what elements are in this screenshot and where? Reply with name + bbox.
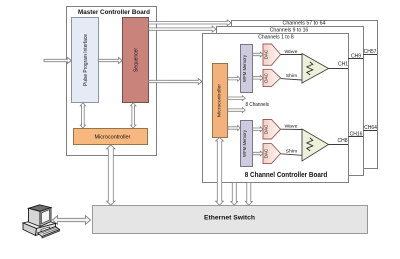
wire: Shim signal DAC4 to amplifier A2: [281, 148, 303, 155]
block U5: WFM Memory (top): [241, 45, 253, 93]
svg-text:DAC: DAC: [264, 124, 269, 134]
monitor: [29, 205, 52, 212]
label: 8 Channels: [246, 102, 270, 108]
svg-text:Microcontroller: Microcontroller: [217, 83, 222, 117]
converter: DAC4 (Shim, bottom group): [263, 144, 281, 164]
wire: CH9 output stub from middle board: [348, 54, 363, 60]
wire: Shim signal DAC2 to amplifier A1: [281, 73, 303, 80]
svg-text:CH1: CH1: [338, 61, 348, 67]
wire: CH57 output stub from back board: [363, 49, 377, 55]
svg-text:Shim: Shim: [286, 148, 298, 153]
svg-text:WFM Memory: WFM Memory: [242, 54, 247, 82]
wire: Microcontroller to WFM Memory (top): [228, 76, 241, 81]
block U2: Sequencer: [123, 18, 149, 103]
wire: host computer to Ethernet Switch (bidirectional arrow): [53, 216, 91, 225]
svg-text:Channels 1 to 8: Channels 1 to 8: [258, 34, 294, 40]
block U1: Pulse Program Interface: [72, 18, 99, 103]
wire: Sequencer to back board (Channels 57 to 64): [149, 20, 231, 26]
svg-text:Channels 57 to 64: Channels 57 to 64: [283, 21, 326, 27]
wire: 8 Channels block arrow (upper): [228, 96, 246, 101]
block U3: Microcontroller (master): [74, 129, 148, 145]
label: 8 Channel Controller Board: [245, 172, 328, 179]
wire: Wave signal DAC3 to amplifier A2: [281, 124, 303, 130]
label: Master Controller Board: [78, 9, 150, 16]
svg-text:WFM Memory: WFM Memory: [242, 129, 247, 157]
wire: CH16 output stub from middle board: [348, 131, 363, 137]
wire: amplifier A1 output to CH1: [329, 61, 349, 68]
svg-text:CH57: CH57: [364, 49, 377, 55]
wire: CH64 output stub from back board: [363, 125, 377, 131]
svg-text:Pulse Program Interface: Pulse Program Interface: [83, 34, 89, 86]
wire: back board link down to Ethernet Switch: [245, 183, 252, 206]
svg-text:Microcontroller: Microcontroller: [95, 135, 131, 141]
board: back 8 channel controller board (Channels 57 to 64): [232, 21, 378, 169]
svg-text:Channels 9 to 16: Channels 9 to 16: [270, 27, 309, 33]
svg-text:CH8: CH8: [337, 138, 347, 144]
svg-text:CH16: CH16: [350, 131, 363, 137]
board: Master Controller Board outline: [67, 7, 157, 156]
amplifier A1 (top, with waveform symbol): [302, 54, 329, 84]
board: middle 8 channel controller board (Channels 9 to 16): [217, 27, 364, 176]
converter: DAC1 (Wave, top group): [263, 44, 281, 65]
converter: DAC2 (Shim, top group): [263, 69, 281, 86]
wire: Sequencer to front board (Channels 1 to 8): [149, 79, 202, 85]
svg-text:8 Channels: 8 Channels: [246, 102, 270, 108]
label: Channels 1 to 8: [258, 34, 294, 40]
svg-text:DAC: DAC: [264, 148, 269, 158]
svg-text:DAC: DAC: [264, 73, 269, 83]
wire: WFM Memory to DAC3: [253, 127, 263, 132]
wire: front board Microcontroller down to Ethernet Switch: [216, 137, 224, 205]
label: Channels 9 to 16: [270, 27, 309, 33]
keyboard: [38, 227, 60, 237]
svg-text:Shim: Shim: [286, 73, 298, 78]
svg-text:Sequencer: Sequencer: [134, 48, 140, 72]
svg-text:Wave: Wave: [285, 124, 298, 129]
block U4: Microcontroller (8 channel board, vertical): [213, 64, 228, 138]
wire: Sequencer down to Microcontroller: [131, 103, 136, 129]
wire: WFM Memory to DAC2: [253, 75, 263, 80]
svg-text:8 Channel Controller Board: 8 Channel Controller Board: [245, 172, 328, 179]
wire: Microcontroller to WFM Memory (bottom): [228, 126, 241, 131]
label: Channels 57 to 64: [283, 21, 326, 27]
block U6: WFM Memory (bottom): [241, 121, 253, 167]
wire: middle board link down to Ethernet Switch: [231, 183, 238, 206]
svg-text:DAC: DAC: [264, 49, 269, 59]
host computer icon (monitor, case, keyboard): [23, 205, 60, 238]
svg-text:Master Controller Board: Master Controller Board: [78, 9, 150, 16]
converter: DAC3 (Wave, bottom group): [263, 120, 281, 140]
wire: Pulse Program Interface down to Microcontroller: [80, 103, 85, 129]
svg-text:Wave: Wave: [285, 49, 298, 54]
wire: Sequencer to middle board (Channels 9 to 16): [149, 26, 216, 32]
wire: Wave signal DAC1 to amplifier A1: [281, 49, 303, 55]
svg-text:CH9: CH9: [351, 54, 361, 60]
wire: WFM Memory to DAC4: [253, 151, 263, 156]
svg-text:CH64: CH64: [364, 125, 377, 131]
wire: external input arrow into Pulse Program Interface: [44, 58, 71, 64]
wire: 8 Channels block arrow (lower): [228, 108, 246, 113]
svg-text:Ethernet Switch: Ethernet Switch: [204, 215, 255, 222]
wire: Pulse Program Interface to Sequencer: [98, 58, 122, 64]
wire: WFM Memory to DAC1: [253, 52, 263, 57]
wire: amplifier A2 output to CH8: [329, 138, 349, 145]
amplifier A2 (bottom, with waveform symbol): [302, 129, 329, 161]
wire: master Microcontroller to Ethernet Switch (bidirectional): [107, 145, 115, 205]
block: Ethernet Switch: [93, 206, 368, 234]
computer case base: [23, 219, 56, 229]
board: front 8 Channel Controller Board: [203, 34, 349, 183]
